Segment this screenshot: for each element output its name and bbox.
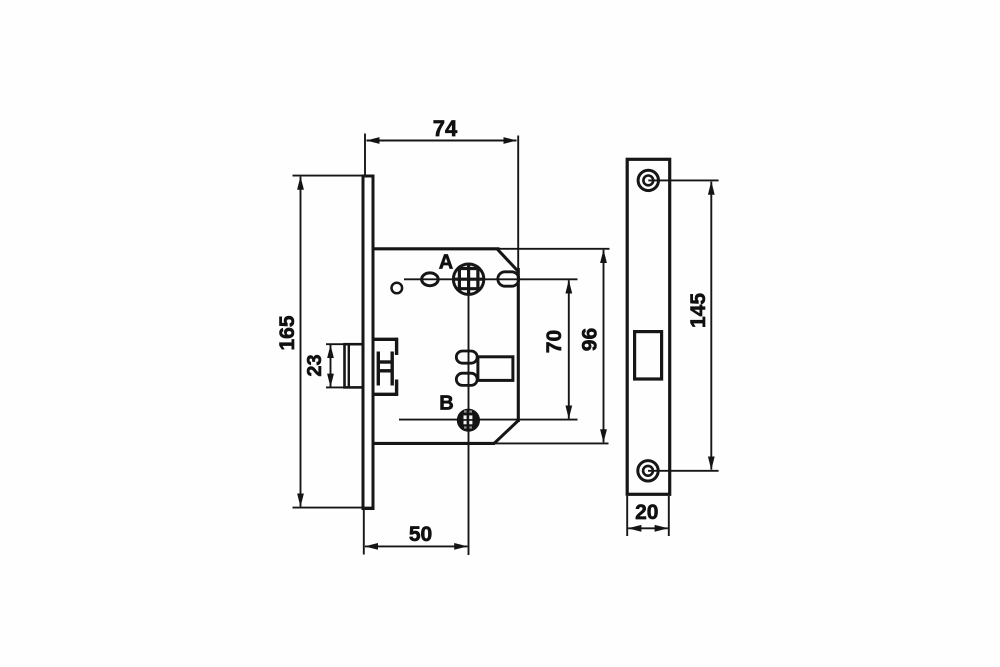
dim 23 top extension line [326,343,345,345]
latch bolt bevel line [348,344,350,387]
strike plate top screw hole outer [638,170,658,190]
lock body top-right chamfer [497,249,518,272]
lock body bottom-right chamfer [494,421,519,445]
latch mechanism detail box (behind faceplate) [373,338,398,396]
knob A (knurled hub) [451,262,486,296]
dim 96 dimension line with arrows [603,250,605,443]
svg-text:B: B [439,393,453,415]
svg-text:70: 70 [543,330,566,353]
svg-text:23: 23 [304,354,326,376]
oval (slot) left of knob A [422,273,439,286]
lock body right edge [517,268,520,422]
dim 74 right extension line [517,136,519,269]
follower rectangle [478,357,513,381]
svg-text:165: 165 [276,315,299,350]
dim 165 dimension line with arrows [300,177,302,507]
dim 50 dimension line with arrows [365,545,467,547]
svg-text:96: 96 [579,328,602,351]
svg-text:74: 74 [433,116,458,141]
svg-text:50: 50 [409,523,432,546]
small circle (screw hole) left of A [392,283,403,294]
faceplate (front plate, tall narrow rectangle) [363,176,373,509]
lock body top edge extension to 96 dim [500,248,610,250]
strike plate top screw hole inner [643,176,653,186]
lower prong oval [456,373,477,385]
lock body bottom edge [372,442,495,445]
dim 165 bottom extension line [293,507,375,509]
dim 23 dimension line with arrows [330,345,332,387]
dim 20 dimension line with arrows [628,527,668,529]
dim 20 right extension line [668,496,670,536]
dim 145 dimension line with arrows [710,182,712,470]
dim 20 left extension line [626,496,628,536]
upper prong oval [456,351,477,363]
horizontal centerline through A [404,278,578,280]
dim 145 top extension line [648,179,718,181]
dim 145 bottom extension line [648,470,719,472]
slot at right edge of body (spindle slot) [498,272,519,286]
dim 70 dimension line with arrows [568,280,570,418]
svg-text:145: 145 [687,293,710,328]
knob B (knurled hub, dark) [457,409,480,432]
svg-text:20: 20 [635,501,658,524]
vertical centerline through A and B [468,264,470,555]
latch bolt protruding left of faceplate [345,344,364,387]
lock body bottom edge extension to 96 dim [495,442,609,444]
dim 74 dimension line with arrows [367,140,517,142]
dim 165 top extension line [293,175,375,177]
strike plate bottom screw hole inner [643,466,653,476]
svg-text:A: A [439,252,453,274]
strike plate latch hole [635,332,662,379]
strike plate outline [627,159,670,494]
dim 50 left extension line (below faceplate) [363,510,365,555]
lock body top edge [373,247,500,250]
dim 23 bottom extension line [326,386,345,388]
strike plate bottom screw hole outer [638,461,658,481]
horizontal centerline through B [399,419,578,421]
dim 74 left extension line [364,134,366,176]
